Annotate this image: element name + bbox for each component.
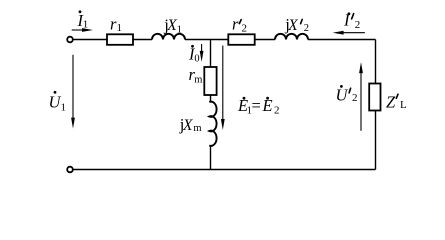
svg-text:2: 2	[304, 23, 309, 34]
svg-text:2: 2	[274, 105, 280, 117]
svg-text:0: 0	[194, 53, 199, 64]
svg-text:=: =	[252, 96, 261, 115]
svg-text:Z: Z	[386, 92, 396, 111]
svg-text:X: X	[166, 17, 177, 34]
svg-text:1: 1	[177, 25, 182, 36]
svg-text:m: m	[194, 75, 202, 86]
svg-text:X: X	[287, 17, 298, 34]
svg-text:L: L	[400, 99, 407, 111]
svg-text:X: X	[182, 117, 193, 134]
svg-text:m: m	[193, 123, 201, 134]
svg-text:1: 1	[83, 19, 89, 31]
svg-text:1: 1	[117, 22, 123, 34]
svg-text:2: 2	[242, 23, 248, 35]
svg-text:1: 1	[61, 102, 67, 114]
svg-text:r: r	[232, 15, 239, 34]
svg-text:U: U	[336, 85, 349, 104]
svg-text:2: 2	[355, 19, 361, 31]
svg-text:2: 2	[352, 92, 358, 104]
